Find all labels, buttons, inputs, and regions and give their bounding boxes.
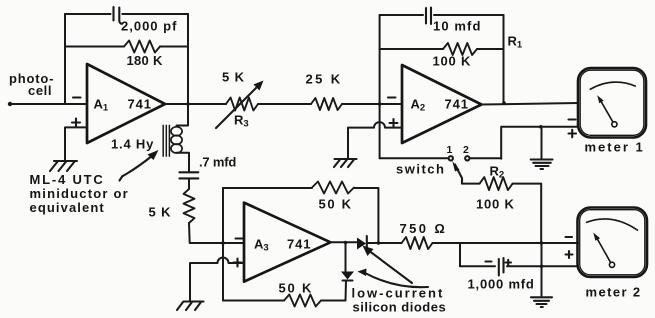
svg-text:1.4 Hy: 1.4 Hy [111,137,154,152]
svg-text:750 Ω: 750 Ω [400,221,448,236]
svg-text:ML-4 UTC: ML-4 UTC [30,172,105,187]
svg-text:5 K: 5 K [222,70,245,85]
svg-text:2: 2 [463,144,469,156]
svg-text:180 K: 180 K [127,53,164,68]
svg-text:1: 1 [447,144,453,156]
svg-text:meter 1: meter 1 [585,140,645,155]
svg-text:cell: cell [28,83,52,98]
svg-text:miniductor or: miniductor or [30,186,129,201]
svg-text:equivalent: equivalent [30,200,105,215]
svg-text:silicon diodes: silicon diodes [353,300,447,315]
svg-text:25 K: 25 K [306,72,343,87]
svg-text:low-current: low-current [352,286,445,301]
svg-text:1,000 mfd: 1,000 mfd [468,277,535,292]
svg-text:5 K: 5 K [149,205,172,220]
svg-text:meter 2: meter 2 [586,285,642,300]
svg-text:741: 741 [445,97,469,112]
svg-text:50 K: 50 K [319,197,353,212]
svg-text:switch: switch [396,162,445,177]
svg-text:2,000 pf: 2,000 pf [121,19,177,34]
svg-text:100 K: 100 K [433,53,472,68]
svg-text:.7 mfd: .7 mfd [199,155,236,170]
svg-text:741: 741 [287,236,311,251]
svg-text:10 mfd: 10 mfd [433,19,482,34]
svg-text:741: 741 [128,97,152,112]
svg-text:50 K: 50 K [279,280,314,295]
svg-text:100 K: 100 K [476,197,515,212]
